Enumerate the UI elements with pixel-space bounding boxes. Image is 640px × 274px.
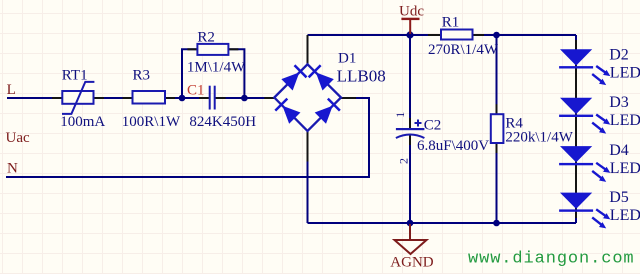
svg-text:LED: LED — [610, 112, 640, 129]
svg-text:C1: C1 — [187, 83, 205, 99]
svg-text:LLB08: LLB08 — [337, 67, 386, 86]
svg-text:L: L — [7, 82, 16, 98]
svg-text:6.8uF\400V: 6.8uF\400V — [417, 138, 489, 154]
svg-text:R2: R2 — [197, 30, 215, 46]
svg-text:D5: D5 — [609, 189, 629, 206]
svg-text:AGND: AGND — [390, 255, 433, 271]
svg-text:Uac: Uac — [6, 130, 30, 146]
svg-text:270R\1/4W: 270R\1/4W — [428, 42, 499, 58]
svg-text:D4: D4 — [609, 142, 629, 159]
svg-text:824K450H: 824K450H — [189, 114, 256, 130]
svg-text:RT1: RT1 — [62, 67, 88, 83]
svg-text:C2: C2 — [424, 118, 442, 134]
svg-text:100R\1W: 100R\1W — [122, 114, 181, 130]
svg-text:R1: R1 — [442, 14, 460, 30]
svg-text:LED: LED — [610, 64, 640, 81]
svg-text:Udc: Udc — [399, 4, 424, 20]
svg-text:1M\1/4W: 1M\1/4W — [187, 60, 246, 76]
svg-text:220k\1/4W: 220k\1/4W — [505, 129, 573, 145]
svg-text:www.diangon.com: www.diangon.com — [468, 250, 635, 269]
svg-text:2: 2 — [397, 158, 411, 164]
svg-text:N: N — [7, 161, 18, 177]
svg-text:D3: D3 — [609, 94, 629, 111]
svg-text:100mA: 100mA — [60, 114, 105, 130]
svg-text:R3: R3 — [133, 67, 151, 83]
svg-text:1: 1 — [393, 112, 407, 118]
svg-text:D1: D1 — [338, 50, 356, 66]
svg-text:LED: LED — [610, 160, 640, 177]
svg-text:LED: LED — [610, 207, 640, 224]
svg-text:D2: D2 — [609, 47, 629, 64]
